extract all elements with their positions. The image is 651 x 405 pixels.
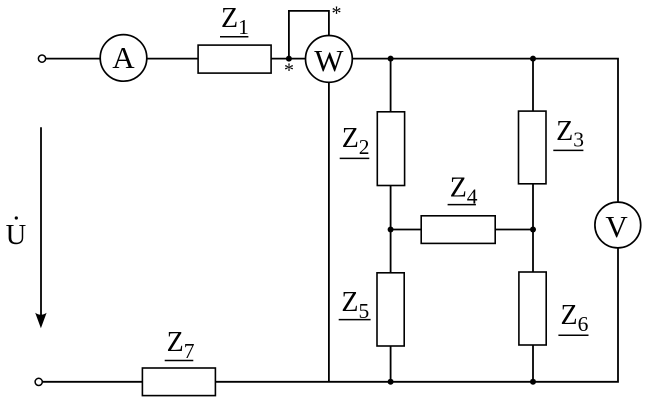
impedance Z3	[519, 111, 547, 184]
wire: top terminal to ammeter	[46, 58, 101, 60]
wire: Z4 to bridge right	[495, 229, 533, 231]
wire: top node to Z3	[532, 59, 534, 112]
impedance Z1	[198, 45, 271, 73]
svg-text:V: V	[605, 209, 628, 244]
label Z2	[340, 123, 370, 159]
wire: Z2 to bridge-left node to Z5	[390, 186, 392, 273]
svg-text:A: A	[112, 40, 135, 75]
ammeter A	[100, 35, 147, 82]
wire: bridge left to Z4	[391, 229, 422, 231]
label Z4	[448, 173, 478, 209]
wire: voltmeter to bottom-right corner	[215, 248, 618, 382]
label U dot (source voltage)	[6, 216, 27, 251]
node: bridge left	[388, 227, 394, 233]
wire: Z1 to wattmeter	[271, 58, 306, 60]
node: wattmeter voltage tap junction	[286, 56, 292, 62]
label Z7	[165, 327, 195, 363]
label Z6	[558, 300, 588, 336]
wire: Z3 to bridge-right node to Z6	[532, 184, 534, 272]
label Z1	[220, 3, 249, 39]
node: top of Z3 branch	[530, 56, 536, 62]
impedance Z2	[377, 112, 404, 186]
node: bridge right	[530, 227, 536, 233]
wattmeter W	[306, 36, 353, 83]
impedance Z4	[421, 216, 495, 244]
node: Z6 bottom on return wire	[530, 379, 536, 385]
node: top of Z2 branch	[388, 56, 394, 62]
arrow: source voltage direction U	[35, 127, 46, 328]
wire: bottom terminal to Z7	[43, 381, 143, 383]
svg-text:*: *	[332, 3, 342, 25]
label Z3	[553, 116, 584, 152]
wire: top node to Z2	[390, 59, 392, 112]
svg-text:W: W	[314, 43, 344, 78]
wire: wattmeter to top-right corner	[352, 59, 618, 203]
terminal: top input	[38, 55, 45, 62]
terminal: bottom input	[35, 378, 42, 385]
wire: ammeter to Z1	[147, 58, 198, 60]
svg-text:*: *	[284, 60, 294, 82]
svg-text:U: U	[6, 220, 27, 251]
wire: Z6 to bottom wire	[532, 345, 534, 382]
wire: wattmeter voltage-coil loop	[289, 11, 329, 59]
label Z5	[339, 287, 371, 323]
impedance Z7	[142, 368, 215, 396]
voltmeter V	[595, 202, 641, 248]
wire: Z5 to bottom wire	[390, 346, 392, 382]
impedance Z5	[377, 273, 404, 346]
node: Z5 bottom on return wire	[388, 379, 394, 385]
impedance Z6	[519, 272, 546, 345]
wire: wattmeter bottom return	[328, 82, 330, 382]
